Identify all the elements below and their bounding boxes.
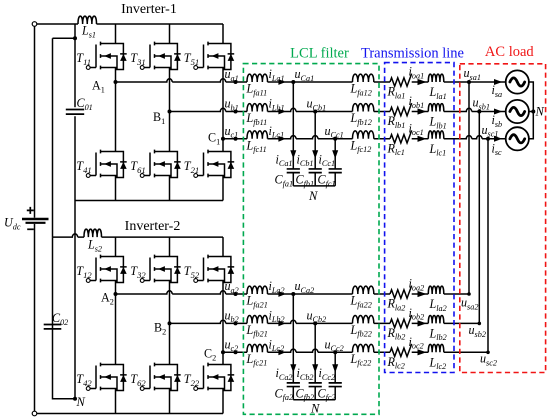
- wire bottom rail: [37, 413, 223, 415]
- AC source phase b: [506, 100, 529, 123]
- transistor T52: [198, 255, 235, 283]
- wire row a to second inductor: [293, 293, 352, 295]
- wire phase b row: [170, 108, 248, 111]
- wire connector phase b2: [444, 112, 480, 324]
- transistor T42: [90, 363, 127, 391]
- wire leg lower drain: [222, 139, 224, 152]
- wire row a1 to source: [444, 81, 506, 83]
- transistor T51: [198, 42, 235, 70]
- inductor Lfc22: [353, 344, 374, 352]
- wire row b1 to source: [444, 108, 506, 111]
- wire row b resistor to inductor: [412, 111, 429, 113]
- resistor Rlc2: [390, 344, 412, 357]
- current arrow iLc1: [278, 136, 285, 142]
- inductor Llb1: [428, 104, 444, 112]
- wire phase c row: [223, 138, 247, 140]
- wire capacitor branch Cfc1: [334, 139, 336, 169]
- wire stub to neutral line: [53, 37, 76, 39]
- wire leg lower drain: [169, 323, 171, 364]
- wire row a resistor to inductor: [412, 293, 429, 295]
- AC load box: [460, 64, 546, 373]
- node uCa2: [291, 292, 295, 296]
- battery Udc: [22, 218, 49, 221]
- transistor T32: [144, 255, 181, 283]
- wire leg drain upper: [115, 24, 117, 44]
- current arrow isa: [494, 79, 502, 85]
- wire capacitor to N bus: [334, 387, 336, 400]
- node phase C1: [221, 137, 225, 141]
- transistor T41: [90, 150, 127, 178]
- capacitor Cfb2: [309, 383, 322, 387]
- capacitor Cfa2: [287, 383, 300, 387]
- wire inverter-1 top rail: [97, 23, 224, 25]
- node phase C2: [221, 350, 225, 354]
- current arrow iCa1: [290, 150, 296, 159]
- wire leg source to bottom rail: [222, 391, 224, 414]
- node DC+ terminal: [32, 22, 37, 27]
- wire row c to second inductor: [335, 351, 352, 353]
- inductor Llc1: [428, 131, 444, 139]
- wire leg source to bottom rail: [169, 391, 171, 414]
- svg-text:Inverter-2: Inverter-2: [125, 219, 181, 234]
- node uCa1: [291, 80, 295, 84]
- wire row b to resistor: [374, 322, 390, 324]
- resistor Rlb2: [390, 315, 412, 328]
- node N bus junction: [531, 110, 535, 114]
- wire inverter-1 bottom rail: [75, 200, 223, 202]
- wire row b to second inductor: [315, 322, 352, 324]
- wire row c to second inductor: [335, 138, 352, 140]
- wire DC+ left drop: [34, 26, 36, 217]
- node uCc2: [333, 350, 337, 354]
- wire capacitor to N bus: [292, 173, 294, 186]
- wire leg source to bottom rail: [115, 178, 117, 201]
- inductor Lfb21: [247, 315, 268, 323]
- inductor Ls1: [78, 16, 97, 24]
- current arrow iLc2: [278, 349, 285, 355]
- current arrow ioa1: [418, 79, 427, 85]
- wire capacitor to N bus: [334, 173, 336, 186]
- node ua1: [234, 80, 238, 84]
- node uCb1: [313, 110, 317, 114]
- wire row a resistor to inductor: [412, 81, 429, 83]
- node uc1: [234, 137, 238, 141]
- capacitor C02: [44, 325, 62, 329]
- svg-text:N: N: [308, 189, 318, 203]
- svg-text:AC load: AC load: [485, 44, 534, 60]
- current arrow iCc1: [332, 150, 338, 159]
- current arrow iLa1: [278, 79, 285, 85]
- wire phase b row: [170, 320, 248, 323]
- current arrow iLa2: [278, 291, 285, 297]
- wire neutral line upper: [52, 38, 54, 237]
- wire row c to resistor: [374, 138, 390, 140]
- current arrow isb: [494, 109, 502, 115]
- svg-text:Transmission line: Transmission line: [361, 46, 464, 62]
- resistor Rla2: [390, 286, 412, 299]
- wire leg drain upper: [169, 24, 171, 44]
- wire leg drain upper: [169, 237, 171, 256]
- AC source phase a: [506, 70, 529, 93]
- AC source phase c: [506, 127, 529, 150]
- svg-text:N: N: [535, 105, 545, 119]
- inductor Lfc21: [247, 344, 268, 352]
- inductor Lfc12: [353, 131, 374, 139]
- wire connector phase a2: [444, 82, 469, 294]
- current arrow ioa2: [418, 291, 427, 297]
- wire leg to phase node: [169, 70, 171, 112]
- wire leg lower drain: [222, 352, 224, 364]
- node usc1: [486, 137, 490, 141]
- inductor Lfb12: [353, 104, 374, 112]
- node usa1: [467, 80, 471, 84]
- wire leg drain upper: [222, 24, 224, 44]
- current arrow ioc2: [418, 349, 427, 355]
- wire AC sources N bus: [529, 82, 533, 139]
- wire leg to phase node: [222, 283, 224, 353]
- resistor Rlc1: [390, 130, 412, 143]
- wire row a mid: [268, 81, 294, 83]
- wire neutral line lower: [53, 237, 76, 399]
- wire leg to phase node: [222, 70, 224, 139]
- svg-text:N: N: [310, 402, 320, 416]
- wire row a to second inductor: [293, 81, 352, 83]
- inductor Ls2: [84, 229, 102, 237]
- wire capacitor to N bus: [292, 387, 294, 400]
- wire leg to phase node: [169, 283, 171, 324]
- inductor Lfa11: [247, 74, 268, 82]
- wire capacitor to N bus: [314, 173, 316, 186]
- node phase B1: [168, 110, 172, 114]
- current arrow isc: [494, 136, 502, 142]
- wire leg source to bottom rail: [115, 391, 117, 414]
- node N junction: [73, 397, 77, 401]
- wire connector phase c2: [444, 139, 488, 352]
- current arrow iob2: [418, 320, 427, 326]
- node ub2: [234, 321, 238, 325]
- wire DC+ top: [37, 23, 78, 25]
- node phase A1: [114, 80, 118, 84]
- wire capacitor branch Cfa2: [292, 294, 294, 382]
- node usb1: [477, 110, 481, 114]
- Transmission line box: [385, 63, 454, 373]
- current arrow iLb2: [278, 321, 285, 327]
- transistor T11: [90, 42, 127, 70]
- wire leg lower drain: [115, 294, 117, 365]
- wire C01 line upper: [74, 38, 76, 107]
- capacitor Cfc2: [329, 383, 342, 387]
- capacitor Cfb1: [309, 169, 322, 173]
- node DC- terminal: [32, 411, 37, 416]
- wire leg source to bottom rail: [169, 178, 171, 201]
- LCL filter box: [243, 64, 379, 415]
- current arrow iob1: [418, 108, 427, 114]
- inductor Lfa21: [247, 286, 268, 294]
- wire inverter-2 feed: [53, 234, 85, 237]
- transistor T61: [144, 150, 181, 178]
- capacitor C01: [66, 110, 84, 115]
- transistor T31: [144, 42, 181, 70]
- wire leg lower drain: [115, 82, 117, 152]
- wire phase c row: [223, 351, 247, 353]
- transistor T21: [198, 150, 235, 178]
- wire leg drain upper: [222, 237, 224, 256]
- svg-text:Inverter-1: Inverter-1: [121, 2, 177, 17]
- inductor Lfa12: [353, 74, 374, 82]
- transistor T12: [90, 255, 127, 283]
- inductor Llb2: [428, 315, 444, 323]
- node uc2: [234, 350, 238, 354]
- wire capacitor N bus: [293, 399, 335, 401]
- transistor T62: [144, 363, 181, 391]
- inductor Lfc11: [247, 131, 268, 139]
- wire capacitor branch Cfc2: [334, 352, 336, 382]
- wire capacitor branch Cfb1: [314, 112, 316, 169]
- capacitor Cfa1: [287, 169, 300, 173]
- inductor Lla2: [428, 286, 444, 294]
- inductor Llc2: [428, 344, 444, 352]
- node phase B2: [168, 321, 172, 325]
- node stub junction: [73, 36, 77, 40]
- current arrow iCa2: [290, 364, 296, 373]
- inductor Lfb11: [247, 104, 268, 112]
- wire row c1 to source: [444, 136, 506, 139]
- wire leg to phase node: [115, 283, 117, 295]
- wire phase a row: [116, 79, 248, 82]
- current arrow ioc1: [418, 136, 427, 142]
- wire capacitor N bus: [293, 185, 335, 187]
- wire row c resistor to inductor: [412, 138, 429, 140]
- current arrow iCb2: [312, 364, 318, 373]
- wire capacitor branch Cfa1: [292, 82, 294, 169]
- wire C01 branch top: [74, 24, 76, 38]
- node phase A2: [114, 292, 118, 296]
- current arrow iLb1: [278, 109, 285, 115]
- wire capacitor to N bus: [314, 387, 316, 400]
- inductor Lfa22: [353, 286, 374, 294]
- wire row b mid: [268, 108, 316, 111]
- node uCb2: [313, 321, 317, 325]
- wire row c mid: [268, 136, 336, 139]
- wire phase a row: [116, 291, 248, 294]
- svg-text:LCL filter: LCL filter: [290, 46, 349, 62]
- wire row c resistor to inductor: [412, 351, 429, 353]
- node ub1: [234, 110, 238, 114]
- wire row b resistor to inductor: [412, 322, 429, 324]
- node uCc1: [333, 137, 337, 141]
- resistor Rla1: [390, 74, 412, 87]
- inductor Lla1: [428, 74, 444, 82]
- wire row b to second inductor: [315, 111, 352, 113]
- wire C01 line lower: [74, 116, 76, 399]
- current arrow iCb1: [312, 150, 318, 159]
- wire leg drain upper: [115, 237, 117, 256]
- inductor Lfb22: [353, 315, 374, 323]
- wire row a mid: [268, 293, 294, 295]
- wire row c to resistor: [374, 351, 390, 353]
- wire row b to resistor: [374, 111, 390, 113]
- transistor T22: [198, 363, 235, 391]
- wire capacitor branch Cfb2: [314, 323, 316, 382]
- wire leg to phase node: [115, 70, 117, 83]
- wire row b mid: [268, 320, 316, 323]
- wire leg source to bottom rail: [222, 178, 224, 201]
- wire row a to resistor: [374, 81, 390, 83]
- capacitor Cfc1: [329, 169, 342, 173]
- wire leg lower drain: [169, 112, 171, 152]
- node ua2: [234, 292, 238, 296]
- wire row a to resistor: [374, 293, 390, 295]
- resistor Rlb1: [390, 103, 412, 116]
- wire battery to bottom rail: [34, 224, 36, 412]
- wire inverter-2 top rail: [102, 236, 224, 238]
- svg-text:N: N: [76, 395, 86, 409]
- current arrow iCc2: [332, 364, 338, 373]
- wire row c mid: [268, 349, 336, 352]
